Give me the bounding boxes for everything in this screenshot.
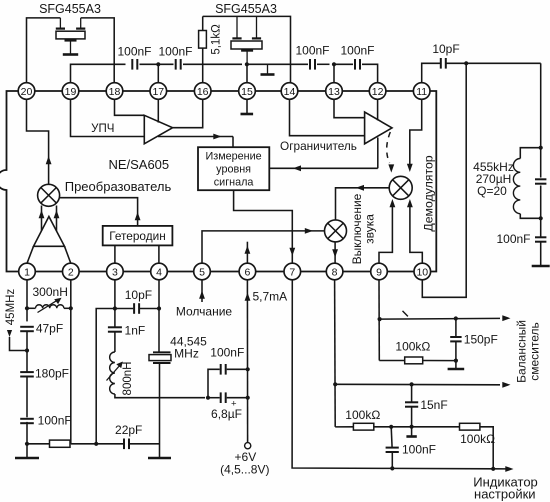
svg-text:звука: звука	[363, 214, 377, 244]
node pin3 branch	[113, 306, 117, 310]
arrow balanced mixer bottom	[502, 382, 510, 388]
node supply rail C14	[246, 367, 250, 371]
supply terminal circle	[245, 443, 251, 449]
pin 10	[414, 263, 431, 280]
capacitor C7 100nF	[540, 218, 542, 237]
svg-text:13: 13	[328, 86, 340, 98]
wire pin6 supply line down	[246, 280, 248, 443]
svg-text:уровня: уровня	[216, 163, 251, 175]
svg-text:Q=20: Q=20	[477, 184, 507, 198]
wire pin11 riser	[422, 63, 441, 82]
node 150pF bottom	[454, 359, 458, 363]
inductor L2 300nH variable coil	[27, 307, 36, 309]
svg-text:4: 4	[156, 266, 162, 278]
node pin4 branch	[157, 306, 161, 310]
svg-text:100kΩ: 100kΩ	[345, 408, 380, 422]
pin 5	[194, 263, 211, 280]
wire A3 to U5 with up arrows	[41, 206, 43, 231]
node pin2 / L2	[69, 306, 73, 310]
resistor R1 5.1 kOhm	[199, 31, 207, 49]
node at pin 17 riser	[156, 62, 160, 66]
svg-text:100kΩ: 100kΩ	[460, 432, 495, 446]
wire pin2 to A3	[65, 246, 71, 263]
wire pin13 riser	[333, 64, 335, 82]
capacitor C10 100nF	[20, 418, 34, 420]
capacitor C4 100nF	[334, 63, 353, 65]
svg-text:19: 19	[65, 86, 77, 98]
node 150pF top	[454, 316, 458, 320]
svg-text:100nF: 100nF	[117, 45, 151, 59]
wire pin11 to U3 with down arrow	[410, 99, 422, 164]
node A on 22pF rail	[94, 442, 98, 446]
svg-text:100nF: 100nF	[158, 45, 192, 59]
resistor R3 100kOhm	[379, 360, 404, 362]
op-amp A2 limiter triangle	[365, 112, 392, 144]
pin 9	[371, 263, 388, 280]
svg-text:УПЧ: УПЧ	[91, 123, 114, 135]
svg-text:11: 11	[416, 86, 427, 98]
node 100nF on indicator rail	[390, 466, 394, 470]
svg-text:2: 2	[68, 266, 74, 278]
capacitor C16 150pF	[455, 319, 457, 338]
resistor R4 100kOhm	[335, 426, 353, 428]
wire U4 output to pin8 with down arrow	[334, 242, 336, 263]
wire U3 output to mute mixer with left arrow	[336, 188, 390, 220]
svg-text:настройки: настройки	[474, 486, 536, 501]
svg-text:7: 7	[289, 266, 295, 278]
svg-text:100kΩ: 100kΩ	[395, 340, 430, 354]
wire C4 to pin 12 riser	[362, 64, 378, 82]
svg-text:16: 16	[197, 86, 209, 98]
wire pin3 down	[114, 280, 116, 327]
wire L3 to supply rail	[115, 394, 205, 398]
ceramic filter Z1 SFG455A3	[59, 18, 61, 29]
wire pin18 to A1 input	[115, 99, 145, 115]
wire node A up to pin3 node	[96, 309, 115, 444]
arrow balanced mixer top	[502, 315, 510, 321]
capacitor C8 47pF	[20, 326, 34, 328]
pin 13	[326, 83, 343, 100]
wire pin19 to A1 input	[71, 99, 145, 136]
node 100nF top	[389, 425, 393, 429]
node pin1 / L2	[25, 306, 29, 310]
svg-text:800nH: 800nH	[122, 362, 134, 396]
node 15nF top	[410, 382, 414, 386]
inductor L3 800nH variable coil	[110, 352, 115, 394]
svg-text:22pF: 22pF	[115, 423, 142, 437]
svg-text:1: 1	[24, 266, 30, 278]
svg-text:Молчание: Молчание	[176, 305, 233, 319]
wire A1 tap to signal level meter with arrow	[158, 136, 233, 138]
ground stub on decoupling rail	[267, 64, 269, 73]
inductor L1 coil	[520, 148, 540, 159]
node at pin 13 riser	[317, 63, 330, 65]
svg-text:SFG455A3: SFG455A3	[215, 2, 277, 16]
wire pin17 riser	[157, 64, 159, 82]
svg-text:SFG455A3: SFG455A3	[39, 2, 101, 16]
pin 4	[151, 263, 168, 280]
wire pin3 to U6	[114, 245, 116, 263]
mixer U5 converter	[38, 184, 60, 206]
wire pin17 stub into A1	[157, 99, 159, 122]
svg-text:MHz: MHz	[174, 347, 199, 361]
wire pin20 to filter Z1 input	[27, 18, 61, 83]
capacitor C15 6.8uF electrolytic	[208, 397, 220, 399]
svg-text:100nF: 100nF	[340, 44, 374, 58]
capacitor C9 180pF	[26, 351, 28, 373]
block U2 signal level meter box	[198, 147, 269, 190]
capacitor C17 15nF	[411, 384, 413, 402]
ground stub inside IC at pin 15	[246, 99, 248, 113]
svg-text:100nF: 100nF	[38, 414, 72, 428]
mixer U3 demodulator	[389, 176, 412, 199]
wire top rail R1 to filter Z2 and pin14 riser	[203, 16, 291, 82]
dashed wire A2 output to U3 with arrow	[387, 132, 391, 163]
wire filter Z1 output to pin 18	[81, 18, 115, 83]
node tank bottom	[539, 216, 543, 220]
svg-text:5: 5	[199, 266, 205, 278]
pin 1	[19, 263, 36, 280]
node right 100k junction on indicator rail	[491, 467, 495, 471]
wire C1 to node pin17	[140, 63, 174, 65]
wire C5 to quadrature tank	[446, 62, 541, 64]
IC U1 NE/SA605 body outline with pin-1 notch	[0, 91, 436, 272]
pin 6	[239, 263, 256, 280]
capacitor C3 100nF	[291, 63, 309, 65]
pin 19	[62, 83, 79, 100]
ground below 150pF	[455, 361, 457, 368]
svg-text:сигнала: сигнала	[214, 176, 254, 188]
capacitor C14 100nF supply bypass	[208, 369, 220, 397]
wire pin9 to U3 with up arrow	[379, 207, 392, 263]
wire R4 rail to R5	[391, 426, 459, 428]
svg-text:10pF: 10pF	[125, 288, 152, 302]
svg-text:(4,5...8V): (4,5...8V)	[220, 462, 269, 476]
wire pin8 down	[334, 280, 337, 427]
capacitor C2 100nF	[175, 59, 177, 70]
svg-text:14: 14	[284, 86, 296, 98]
svg-text:10: 10	[416, 266, 428, 278]
node tank top	[539, 146, 543, 150]
wire pin15 riser	[246, 64, 248, 82]
wire U6 output to U5 with up arrow	[60, 198, 138, 226]
wire pin19 riser to decoupling rail	[71, 64, 126, 82]
pin 8	[326, 263, 343, 280]
wire quadrature node down to pin 10	[422, 63, 466, 297]
node 15nF bottom on R4 rail	[410, 425, 414, 429]
block U6 local oscillator Geterodin box	[103, 226, 173, 246]
wire pin5 to U4 with right arrow	[202, 231, 325, 263]
pin 7	[284, 263, 301, 280]
node pin9 branch	[378, 317, 382, 321]
svg-text:6: 6	[244, 266, 250, 278]
wire pin10 to U3 with up arrow	[410, 207, 422, 263]
node C5 output / pin10 branch	[464, 61, 468, 65]
wire pin7 down to indicator rail	[292, 280, 392, 469]
wire pin1 to A3	[27, 246, 34, 263]
svg-text:100nF: 100nF	[210, 346, 244, 360]
capacitor C6 tank capacitor	[540, 148, 542, 178]
svg-text:NE/SA605: NE/SA605	[108, 157, 169, 172]
pin 12	[369, 83, 386, 100]
svg-text:10pF: 10pF	[432, 42, 459, 56]
wire pin14 to A2 input	[290, 99, 365, 135]
wire pin4 down to crystal	[158, 280, 160, 353]
svg-text:8: 8	[332, 266, 338, 278]
wire R5 down to indicator rail	[480, 427, 493, 469]
svg-text:+: +	[231, 399, 237, 410]
wire limiter output to U2 with left arrow	[269, 167, 378, 169]
pin 20	[18, 83, 35, 100]
arrow tuning indicator output	[493, 468, 505, 470]
svg-text:5,1kΩ: 5,1kΩ	[211, 24, 223, 55]
arrow inside IC above pin6	[246, 242, 248, 264]
node pin8 branch	[333, 382, 337, 386]
svg-text:300nH: 300nH	[33, 285, 68, 299]
svg-text:18: 18	[109, 86, 121, 98]
svg-text:6,8µF: 6,8µF	[211, 407, 242, 421]
svg-text:45MHz: 45MHz	[5, 289, 17, 326]
ground below crystal	[148, 457, 171, 460]
op-amp A1 IF amplifier UPCh triangle	[144, 115, 172, 144]
svg-text:Балансный: Балансный	[515, 320, 529, 383]
arrow 5.7mA on supply line	[245, 293, 251, 301]
pin 14	[281, 83, 298, 100]
svg-text:15: 15	[241, 86, 253, 98]
svg-text:1nF: 1nF	[125, 324, 146, 338]
wire tank vertical	[540, 63, 542, 147]
wire crystal down to ground	[159, 363, 161, 457]
pin 18	[106, 83, 123, 100]
pin 16	[194, 83, 211, 100]
svg-text:100nF: 100nF	[295, 44, 329, 58]
svg-text:Измерение: Измерение	[206, 150, 262, 162]
capacitor C11 22pF	[96, 443, 125, 445]
svg-text:Демодулятор: Демодулятор	[422, 155, 436, 231]
svg-text:15nF: 15nF	[420, 398, 447, 412]
wire C2 to filter Z2 node	[183, 63, 242, 65]
wire pin13 to A2 input	[334, 99, 365, 117]
svg-text:смеситель: смеситель	[528, 322, 542, 381]
op-amp A3 RF input amplifier triangle	[34, 217, 65, 247]
svg-text:47pF: 47pF	[36, 322, 63, 336]
svg-text:100nF: 100nF	[496, 232, 530, 246]
capacitor C12 10pF	[115, 308, 133, 310]
svg-text:Преобразователь: Преобразователь	[65, 179, 172, 194]
wire balanced mixer output top	[380, 317, 500, 320]
svg-text:5,7mA: 5,7mA	[253, 290, 288, 304]
pin 2	[63, 263, 80, 280]
capacitor C1 100nF	[131, 59, 133, 70]
wire pin9 down	[378, 280, 380, 361]
wire balanced mixer output bottom	[335, 383, 500, 386]
crystal X1	[153, 351, 171, 353]
resistor R2	[27, 443, 50, 445]
wire pin12 stub into A2	[377, 99, 379, 120]
wire node to rail end	[247, 63, 291, 65]
wire R2 to node A	[71, 443, 96, 445]
resistor R5 100kOhm	[460, 423, 480, 430]
ground at input network	[26, 444, 28, 457]
wire pin2 down to R2	[70, 280, 72, 444]
svg-text:100nF: 100nF	[402, 443, 436, 457]
node 45MHz input on pin1 branch	[25, 348, 29, 352]
wire mute input stub below pin5	[201, 280, 203, 302]
capacitor C5 10pF	[440, 58, 442, 69]
svg-text:20: 20	[21, 86, 33, 98]
svg-text:Гетеродин: Гетеродин	[109, 229, 165, 243]
svg-text:3: 3	[112, 266, 118, 278]
wire pin16 riser through R1 to top rail	[202, 48, 204, 83]
svg-text:150pF: 150pF	[464, 333, 498, 347]
svg-text:12: 12	[372, 86, 384, 98]
svg-text:180pF: 180pF	[35, 367, 69, 381]
svg-text:Ограничитель: Ограничитель	[280, 139, 357, 153]
capacitor C13 1nF	[108, 326, 122, 328]
mixer U4 mute switch	[325, 220, 347, 242]
ceramic filter Z2 SFG455A3	[236, 16, 238, 38]
pin 15	[239, 83, 256, 100]
node supply rail C15	[246, 396, 250, 400]
svg-text:17: 17	[152, 86, 164, 98]
ground below C7	[540, 242, 542, 265]
pin 11	[413, 83, 430, 100]
wire A1 output to pin16	[173, 99, 203, 127]
input 45MHz arrow	[7, 330, 12, 337]
wire pin4 to U6	[158, 245, 160, 263]
node pin15 / filter Z2 ground lead	[245, 62, 249, 66]
capacitor C18 100nF	[390, 427, 393, 448]
ground under filter Z1	[63, 53, 78, 56]
pin 3	[107, 263, 124, 280]
svg-text:9: 9	[376, 266, 382, 278]
pin 17	[150, 83, 167, 100]
ground stub below 15nF	[411, 427, 413, 436]
wire U2 bottom to pin7 with down arrow	[234, 190, 293, 263]
kink mark on wire	[403, 311, 408, 317]
node supply bypass	[206, 396, 210, 400]
wire U5 output to pin20 with up arrow	[27, 99, 49, 184]
node pin1 branch bottom	[25, 442, 29, 446]
wire indicator rail to arrow	[392, 467, 493, 469]
wire pin1 down	[26, 280, 28, 322]
